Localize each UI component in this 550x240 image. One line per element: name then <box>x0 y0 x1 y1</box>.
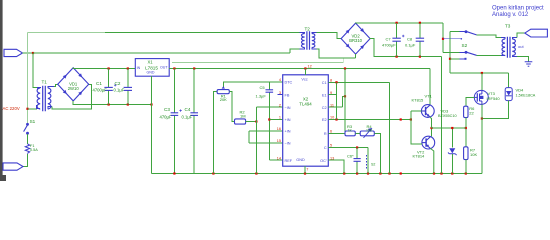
svg-text:out: out <box>518 44 524 49</box>
node C3 top <box>173 67 175 69</box>
svg-text:Vcc: Vcc <box>301 78 307 82</box>
fuse F1 <box>25 144 29 154</box>
wire VD1 plus stub <box>72 67 74 70</box>
wire S2 to T3 prim top <box>477 35 501 38</box>
svg-text:22: 22 <box>469 110 474 115</box>
wire pins 16 and 15 tie <box>249 131 283 143</box>
svg-text:2: 2 <box>279 103 281 107</box>
wire mains N top rail <box>105 31 300 33</box>
wire S2 lower contact stub <box>460 51 466 53</box>
svg-text:1: 1 <box>279 116 281 120</box>
wire R1 right to R2 left <box>230 92 235 122</box>
svg-text:C4: C4 <box>185 107 191 112</box>
transistor VT2 KT814 <box>422 136 435 149</box>
svg-text:S2: S2 <box>462 43 468 48</box>
node pin11 tie <box>344 95 346 97</box>
node gnd R5 <box>400 172 402 174</box>
wire HV minus rail <box>370 38 442 56</box>
wire R1 left to ground <box>213 92 217 174</box>
wire mains N top rail pale part <box>28 31 106 33</box>
wire R4 right down to ground <box>374 133 380 173</box>
wire C1 leads <box>108 69 110 105</box>
wire C6 leads <box>356 148 358 174</box>
wire gate to R6 <box>466 97 475 106</box>
node X1 gnd junction <box>150 103 152 105</box>
wire C7 leads <box>396 23 398 57</box>
wire Vcc pin12 stub <box>304 69 306 75</box>
svg-text:15: 15 <box>277 139 281 143</box>
node gnd R1 <box>212 172 214 174</box>
wire pin8 C1 row <box>328 81 389 83</box>
node VCC junction <box>304 67 306 69</box>
switch S1 <box>24 123 29 134</box>
node gnd VT2 emitter <box>433 172 435 174</box>
wire VT1 emitter to VT2 collector <box>430 117 432 137</box>
svg-text:REF: REF <box>285 159 293 163</box>
wire S2 upper pole feed <box>450 31 460 33</box>
svg-text:T2: T2 <box>305 27 311 32</box>
svg-text:VD4: VD4 <box>516 88 525 93</box>
svg-text:2W10: 2W10 <box>68 86 80 91</box>
svg-text:0.5A: 0.5A <box>30 148 38 152</box>
node VD3 tap <box>451 127 453 129</box>
wire R6 to R7 <box>465 118 467 147</box>
wire T3 prim bottom stub <box>501 54 505 56</box>
capacitor C2 <box>124 87 132 90</box>
potentiometer R1 <box>217 90 229 94</box>
svg-text:GND: GND <box>296 158 305 162</box>
svg-text:4700µF: 4700µF <box>93 88 108 93</box>
port X mains input bottom <box>3 163 23 170</box>
wire R1 wiper to DTC pin4 <box>223 82 282 87</box>
wire GND pin7 stub <box>304 166 306 173</box>
node S2 lower stub <box>449 58 451 60</box>
wire S2 to T3 prim bottom <box>477 54 501 56</box>
node driver output <box>430 127 432 129</box>
svg-text:0.1µF: 0.1µF <box>405 43 416 48</box>
svg-text:TL494: TL494 <box>299 101 312 106</box>
wire +15V rail <box>169 68 430 70</box>
svg-text:0.1µF: 0.1µF <box>182 115 193 120</box>
wire T1 prim bottom stub <box>37 105 41 108</box>
svg-text:Analog v. 012: Analog v. 012 <box>492 12 529 18</box>
node gnd R4 leg <box>379 172 381 174</box>
wire to T1 primary bottom <box>28 105 37 109</box>
wire S2 upper contact stub <box>460 31 466 33</box>
wire HV plus to S2 lower pole <box>443 23 460 53</box>
svg-text:0.1µF: 0.1µF <box>114 88 125 93</box>
node C2 top <box>127 67 129 69</box>
wire pin6 RT stub <box>328 132 345 134</box>
switch S2 <box>465 31 476 55</box>
wire driver output to gate resistor <box>432 119 466 128</box>
wire T2 sec bottom stub <box>312 48 317 50</box>
wire pin13 OC to ground <box>328 160 344 173</box>
svg-text:C1: C1 <box>96 81 102 86</box>
node VT3 drain <box>481 72 483 74</box>
wire R3 to R4 <box>355 132 360 134</box>
svg-text:VT1: VT1 <box>425 94 433 99</box>
svg-text:C2: C2 <box>115 81 121 86</box>
node gnd -IN leg <box>255 172 257 174</box>
wire T3 sec top to out port <box>517 33 525 38</box>
ground symbol <box>525 62 533 66</box>
wire VT3 source to ground rail <box>481 104 483 173</box>
transistor VT3 IRF540 <box>474 90 488 104</box>
wire T3 prim top stub <box>501 38 505 40</box>
regulator X1 L7815 <box>135 59 169 77</box>
wire VD3 to ground <box>451 154 453 174</box>
svg-text:DTC: DTC <box>285 81 293 85</box>
svg-text:T1: T1 <box>42 80 48 85</box>
bridge rectifier VD1 <box>58 68 89 101</box>
wire VT2 emitter to ground <box>430 148 434 173</box>
wire F1 to port <box>23 154 28 167</box>
svg-text:4700µF: 4700µF <box>382 43 396 48</box>
node gnd C6 <box>356 172 358 174</box>
wire +15V down to VT1 collector <box>429 69 431 106</box>
svg-text:16: 16 <box>277 127 281 131</box>
frame left bar <box>0 0 3 181</box>
capacitor C3 <box>171 113 179 116</box>
wire T2 prim bottom stub <box>300 48 305 50</box>
wire C2 leads <box>127 69 129 105</box>
wire S2 unused contact thin <box>443 38 461 40</box>
capacitor C7 <box>392 38 400 41</box>
node base tee <box>410 118 412 120</box>
capacitor C5 <box>266 90 274 92</box>
wire T1 sec top to VD1 left <box>54 84 58 86</box>
op-amp U1 / PWM IC X2 TL494 <box>283 75 329 166</box>
wire -IN leg down to ground <box>255 107 257 173</box>
wire pin5 CT row <box>328 148 368 174</box>
svg-text:+IN: +IN <box>285 130 291 134</box>
wire port1 to junction <box>23 52 34 54</box>
wire R2 right <box>246 121 257 123</box>
wire VD3 top lead <box>451 128 453 148</box>
svg-text:S2: S2 <box>371 163 375 167</box>
wire T3 drain feed <box>449 32 451 73</box>
svg-text:12: 12 <box>308 65 312 69</box>
wire C8 leads <box>419 23 421 57</box>
node C1 top <box>108 67 110 69</box>
wire +15 leg down to R3 <box>344 69 346 134</box>
resistor R3 <box>345 131 355 136</box>
resistor R7 <box>464 147 468 160</box>
node source VD4 junction <box>481 117 483 119</box>
node +IN junction <box>268 118 270 120</box>
node gnd R7 <box>465 172 467 174</box>
svg-text:X1: X1 <box>147 60 153 65</box>
svg-text:C2: C2 <box>322 106 327 110</box>
node R5 tap <box>400 118 402 120</box>
node gnd IC GND <box>304 172 306 174</box>
wire pin9 riser <box>336 82 338 94</box>
svg-text:1,5KE18CA: 1,5KE18CA <box>516 94 536 98</box>
node gate drive junction <box>465 127 467 129</box>
node S2 unused throw upper <box>442 38 444 40</box>
svg-text:14: 14 <box>277 156 281 160</box>
svg-text:10K: 10K <box>470 152 477 157</box>
node gnd C6 box leg <box>367 172 369 174</box>
wire mains L to T2 primary bottom <box>33 49 300 53</box>
svg-text:C6*: C6* <box>347 153 354 158</box>
wire ground rail <box>152 173 483 175</box>
node E2 riser junction <box>335 118 337 120</box>
svg-text:1.3µF: 1.3µF <box>256 93 267 98</box>
node C7 top <box>396 22 398 24</box>
wire VT1 base <box>411 110 422 112</box>
wire riser pin8 to pin10 <box>336 82 338 119</box>
wire HV switched to VT3 drain and VD4 <box>450 72 509 74</box>
svg-text:R: R <box>324 132 327 136</box>
port X mains input top <box>4 49 23 56</box>
wire pale net <box>172 59 343 63</box>
svg-text:+IN: +IN <box>285 118 291 122</box>
wire T2 sec top to VD2 <box>317 32 342 38</box>
svg-text:IN: IN <box>137 66 141 70</box>
wire T2 sec bottom to VD2 bottom <box>317 49 356 58</box>
svg-text:GND: GND <box>147 71 155 75</box>
zener diode VD3 <box>449 148 455 153</box>
capacitor C4 <box>190 113 198 116</box>
node gnd HV minus <box>440 172 442 174</box>
wire R7 to ground <box>465 160 467 174</box>
wire T2 prim top stub <box>300 32 305 33</box>
potentiometer R4 <box>360 131 374 136</box>
svg-text:C1: C1 <box>322 81 327 85</box>
svg-text:VD3: VD3 <box>441 108 450 113</box>
wire S2 unused contact lower <box>450 58 460 60</box>
svg-text:10K: 10K <box>366 129 373 133</box>
svg-text:C7: C7 <box>386 37 392 42</box>
wire C4 leads <box>193 69 195 174</box>
node mains L junction <box>32 52 34 54</box>
port out <box>525 29 548 37</box>
node C4 top <box>193 67 195 69</box>
wire dashed link <box>366 155 368 170</box>
wire +V unregulated rail <box>73 68 135 70</box>
node gnd C3 <box>173 172 175 174</box>
wire S1 to F1 <box>27 134 29 144</box>
wire base tee to VT2 base <box>411 111 422 144</box>
wire VT1 collector stub <box>429 104 431 106</box>
node R2 right junction <box>255 120 257 122</box>
wire -IN pin2 stub <box>256 106 282 108</box>
svg-text:4: 4 <box>279 78 281 82</box>
transformer T3 <box>502 37 515 58</box>
node gnd drive leg <box>388 172 390 174</box>
svg-text:470µF: 470µF <box>160 115 172 120</box>
wire T1 prim top stub <box>37 87 40 89</box>
svg-text:1K: 1K <box>348 129 353 133</box>
svg-text:E1: E1 <box>322 93 327 97</box>
capacitor C8 <box>416 38 424 41</box>
svg-text:Open kirlian project: Open kirlian project <box>492 5 544 11</box>
wire T3 sec bottom to ground sym <box>517 57 529 62</box>
node pin8 riser junction <box>335 81 337 83</box>
capacitor C1 <box>104 87 112 90</box>
transistor VT1 KT815 <box>421 105 434 118</box>
svg-text:AC 220V: AC 220V <box>3 106 20 111</box>
svg-text:IRF540: IRF540 <box>487 96 501 101</box>
svg-text:20K: 20K <box>220 97 227 102</box>
resistor R2 <box>235 119 246 124</box>
wire C3 leads <box>173 69 175 174</box>
svg-text:FB: FB <box>285 93 290 97</box>
svg-text:−IN: −IN <box>285 106 291 110</box>
pin FB unconnected stub <box>278 94 283 96</box>
wire VD1 minus rail <box>73 101 151 105</box>
svg-text:T3: T3 <box>505 24 511 29</box>
node gnd VD3 <box>451 172 453 174</box>
svg-text:KT815: KT815 <box>412 98 425 103</box>
svg-text:1M: 1M <box>240 114 246 119</box>
node C8 top <box>419 22 421 24</box>
wire VT3 drain lead <box>481 73 483 91</box>
svg-text:C5: C5 <box>260 85 266 90</box>
resistor R6 <box>464 106 468 117</box>
wire T3 sec bottom stub <box>512 56 517 57</box>
wire HV minus down to ground rail <box>441 57 443 174</box>
wire drive leg down to ground <box>389 82 391 173</box>
svg-text:C: C <box>324 146 327 150</box>
node C6 tap <box>356 146 358 148</box>
wire HV plus rail <box>356 22 443 24</box>
wire T1 secondary stubs <box>48 87 54 110</box>
TVS diode VD4 <box>505 88 512 101</box>
svg-text:OUT: OUT <box>160 66 168 70</box>
svg-text:BR310: BR310 <box>349 38 362 43</box>
svg-text:C3: C3 <box>164 107 170 112</box>
svg-text:OC′: OC′ <box>320 159 327 163</box>
bridge rectifier VD2 <box>341 23 370 54</box>
node C8 bottom <box>419 56 421 58</box>
wire C5 REF column <box>268 82 270 160</box>
svg-text:S1: S1 <box>30 119 36 124</box>
transformer T1 <box>37 86 51 111</box>
wire X1 GND down to ground rail <box>151 76 153 173</box>
wire pin11 C2 to +15 leg <box>328 96 345 107</box>
wire REF pin14 stub <box>269 159 282 161</box>
svg-text:−IN: −IN <box>285 142 291 146</box>
node C2 bottom <box>127 103 129 105</box>
wire VD4 bottom to source <box>482 101 509 119</box>
wire pin10 E2 drive row <box>328 119 411 121</box>
svg-text:E2: E2 <box>322 118 327 122</box>
node C1 bottom <box>108 103 110 105</box>
wire pin9 E1 stub <box>328 94 336 96</box>
capacitor C6 <box>354 159 361 162</box>
wire +IN pin1 stub <box>269 119 282 121</box>
transformer T2 <box>302 31 315 49</box>
svg-text:KT814: KT814 <box>413 154 426 159</box>
node AC220V junction <box>26 108 28 110</box>
wire VD2 bottom stub <box>355 54 357 58</box>
wire VD4 top lead <box>508 73 510 88</box>
wire T3 sec top stub <box>512 38 517 40</box>
node R3 feed junction <box>344 67 346 69</box>
wire junction down to T1 primary top <box>33 53 37 88</box>
svg-text:BZX55C10: BZX55C10 <box>438 114 457 118</box>
svg-text:7: 7 <box>306 168 308 172</box>
wire T2 sec top stub <box>312 32 317 33</box>
wire T1 sec bottom to VD1 right <box>52 84 92 109</box>
wire mains N down to S1 (pale) <box>27 32 29 123</box>
svg-text:C8: C8 <box>407 37 413 42</box>
node C7 bottom <box>396 56 398 58</box>
node gnd OC leg <box>343 172 345 174</box>
